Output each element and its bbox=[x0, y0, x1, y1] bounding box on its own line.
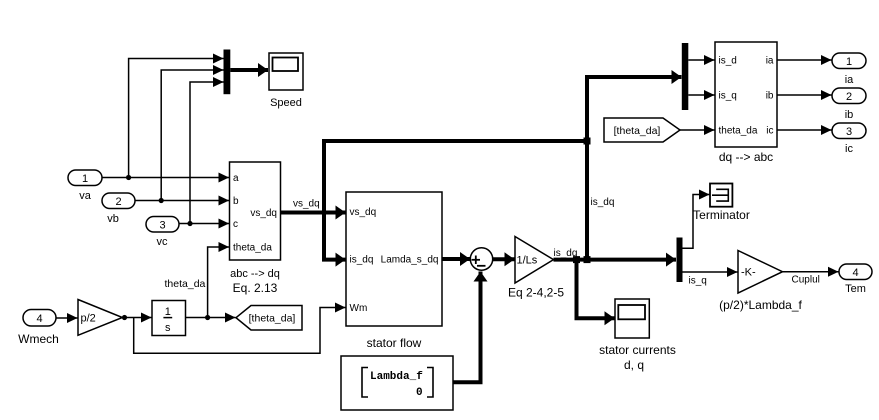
svg-text:ic: ic bbox=[845, 143, 853, 155]
svg-text:vs_dq: vs_dq bbox=[350, 207, 377, 218]
svg-text:Cuplul: Cuplul bbox=[792, 275, 820, 286]
svg-text:b: b bbox=[233, 196, 239, 207]
svg-text:1: 1 bbox=[165, 306, 171, 318]
svg-text:vb: vb bbox=[107, 213, 119, 225]
svg-text:theta_da: theta_da bbox=[233, 243, 272, 254]
svg-text:1: 1 bbox=[846, 56, 852, 68]
svg-text:a: a bbox=[233, 173, 239, 184]
svg-text:stator currents: stator currents bbox=[599, 343, 676, 357]
svg-text:Lamda_s_dq: Lamda_s_dq bbox=[381, 255, 439, 266]
svg-text:stator flow: stator flow bbox=[367, 336, 422, 350]
svg-text:is_dq: is_dq bbox=[554, 248, 578, 259]
svg-text:theta_da: theta_da bbox=[165, 278, 206, 290]
svg-text:3: 3 bbox=[159, 220, 165, 232]
svg-text:Eq. 2.13: Eq. 2.13 bbox=[233, 281, 278, 295]
svg-text:3: 3 bbox=[846, 126, 852, 138]
svg-text:ib: ib bbox=[766, 91, 774, 102]
svg-text:Speed: Speed bbox=[270, 97, 302, 109]
svg-text:Wm: Wm bbox=[350, 303, 368, 314]
svg-text:ic: ic bbox=[766, 126, 773, 137]
svg-text:[theta_da]: [theta_da] bbox=[249, 313, 296, 325]
svg-text:Tem: Tem bbox=[845, 283, 866, 295]
svg-text:Lambda_f: Lambda_f bbox=[370, 371, 423, 383]
svg-text:is_dq: is_dq bbox=[350, 255, 374, 266]
svg-text:ia: ia bbox=[766, 56, 774, 67]
svg-text:is_q: is_q bbox=[689, 276, 707, 287]
svg-text:0: 0 bbox=[416, 387, 423, 399]
svg-text:4: 4 bbox=[36, 313, 42, 325]
svg-text:vs_dq: vs_dq bbox=[293, 199, 320, 210]
svg-text:[theta_da]: [theta_da] bbox=[614, 125, 661, 137]
svg-text:1: 1 bbox=[82, 173, 88, 185]
svg-text:Terminator: Terminator bbox=[693, 208, 750, 222]
svg-text:vs_dq: vs_dq bbox=[250, 208, 277, 219]
svg-text:1/Ls: 1/Ls bbox=[517, 255, 538, 267]
svg-text:dq --> abc: dq --> abc bbox=[719, 150, 773, 164]
svg-text:s: s bbox=[165, 322, 171, 334]
svg-text:theta_da: theta_da bbox=[719, 126, 758, 137]
svg-text:2: 2 bbox=[846, 91, 852, 103]
svg-text:(p/2)*Lambda_f: (p/2)*Lambda_f bbox=[719, 298, 802, 312]
svg-text:ib: ib bbox=[845, 109, 854, 121]
svg-text:vc: vc bbox=[157, 236, 169, 248]
svg-text:c: c bbox=[233, 219, 238, 230]
svg-text:Wmech: Wmech bbox=[18, 332, 59, 346]
svg-text:ia: ia bbox=[845, 74, 854, 86]
svg-text:-K-: -K- bbox=[741, 267, 756, 279]
svg-text:is_dq: is_dq bbox=[591, 197, 615, 208]
svg-text:abc --> dq: abc --> dq bbox=[230, 268, 280, 280]
svg-text:p/2: p/2 bbox=[81, 313, 96, 325]
svg-text:Eq 2-4,2-5: Eq 2-4,2-5 bbox=[508, 286, 564, 300]
svg-text:va: va bbox=[79, 190, 92, 202]
svg-text:2: 2 bbox=[115, 196, 121, 208]
svg-text:is_d: is_d bbox=[719, 56, 737, 67]
svg-text:is_q: is_q bbox=[719, 91, 737, 102]
svg-text:d, q: d, q bbox=[624, 358, 644, 372]
svg-text:4: 4 bbox=[852, 267, 858, 279]
